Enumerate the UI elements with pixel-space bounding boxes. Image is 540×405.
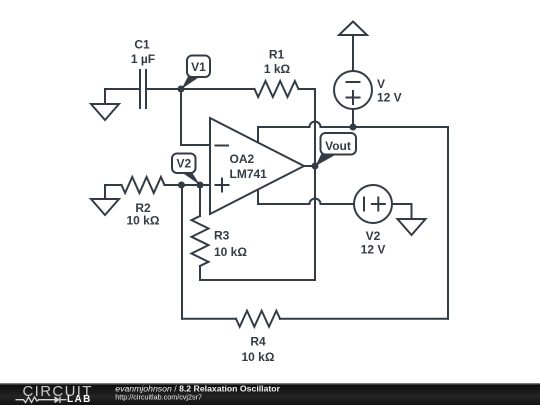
resistor R3 [192, 185, 209, 280]
svg-text:R1: R1 [269, 48, 285, 62]
wire R3 bottom to output column [200, 279, 315, 281]
wire C1 to V1 to R1 [146, 88, 255, 90]
voltage source V (12 V) [334, 71, 372, 127]
wire bottom rail right [280, 318, 448, 320]
node V1 junction dot [178, 86, 185, 93]
capacitor C1 [140, 70, 146, 108]
wire noninverting input row [105, 184, 122, 186]
wire plus-node down to R4 rail [181, 185, 183, 319]
wire R1 right then down to output [299, 88, 316, 90]
svg-text:R3: R3 [214, 229, 230, 243]
svg-text:R4: R4 [250, 335, 266, 349]
svg-text:V: V [377, 77, 385, 91]
op-amp OA2 LM741 [210, 118, 304, 214]
junction dot plus-node left [178, 182, 185, 189]
wire R2 to op-amp [165, 184, 211, 186]
svg-text:LM741: LM741 [230, 167, 268, 181]
svg-text:10 kΩ: 10 kΩ [242, 350, 275, 364]
wire bottom supply rail with hop [258, 190, 354, 204]
ground G3 (right of V2) [398, 219, 426, 235]
wire V1 to inverting input [181, 89, 210, 145]
svg-text:LAB: LAB [67, 394, 92, 405]
junction dot Vout [312, 163, 319, 170]
svg-text:C1: C1 [134, 38, 150, 52]
node label V1 [182, 56, 211, 90]
voltage source V2 (12 V) [354, 185, 392, 223]
ground G1 (left of C1) [91, 89, 119, 120]
wire op-amp output [304, 165, 315, 167]
svg-text:12 V: 12 V [361, 243, 386, 257]
logo resistor-diode squiggle [16, 397, 67, 404]
svg-text:http://circuitlab.com/cvj2sr7: http://circuitlab.com/cvj2sr7 [115, 393, 202, 402]
svg-text:1 µF: 1 µF [131, 52, 155, 66]
resistor R1 [255, 81, 299, 97]
svg-text:V1: V1 [191, 60, 206, 74]
wire right rail down [447, 127, 449, 319]
wire C1 left [105, 88, 140, 90]
wire bottom rail left [182, 318, 236, 320]
resistor R2 [122, 177, 165, 193]
wire top supply rail with hop [258, 122, 448, 142]
svg-text:12 V: 12 V [377, 90, 402, 104]
svg-text:10 kΩ: 10 kΩ [127, 213, 160, 227]
junction dot plus-node right [197, 182, 204, 189]
resistor R4 [236, 311, 280, 327]
svg-text:V2: V2 [176, 157, 191, 171]
ground G2 (below R2 left) [91, 185, 119, 215]
svg-text:Vout: Vout [325, 139, 351, 153]
node label Vout [316, 133, 357, 166]
footer bar [0, 383, 540, 405]
node label V2 [172, 154, 200, 186]
wire V2 right to ground [392, 204, 412, 219]
wire vertical output column [314, 89, 316, 280]
svg-text:1 kΩ: 1 kΩ [264, 62, 291, 76]
svg-text:OA2: OA2 [230, 152, 255, 166]
power arrow VCC [339, 22, 367, 72]
svg-text:10 kΩ: 10 kΩ [214, 245, 247, 259]
junction dot supply rail [350, 124, 357, 131]
svg-text:V2: V2 [366, 229, 381, 243]
